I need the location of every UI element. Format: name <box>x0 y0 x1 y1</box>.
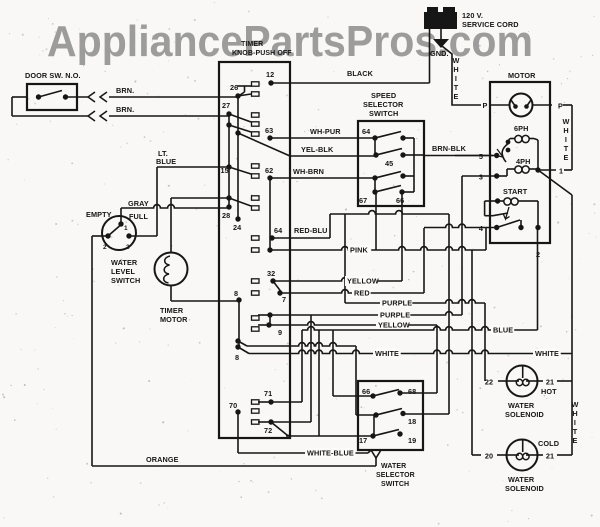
svg-text:START: START <box>503 187 528 196</box>
svg-text:SWITCH: SWITCH <box>111 276 140 285</box>
svg-text:SOLENOID: SOLENOID <box>505 410 544 419</box>
svg-text:HOT: HOT <box>541 387 557 396</box>
svg-text:67: 67 <box>359 196 367 205</box>
svg-text:12: 12 <box>266 70 274 79</box>
svg-text:COLD: COLD <box>538 439 559 448</box>
svg-text:7: 7 <box>282 295 286 304</box>
svg-text:26: 26 <box>230 83 238 92</box>
svg-text:32: 32 <box>267 269 275 278</box>
svg-text:20: 20 <box>485 452 493 461</box>
svg-text:W: W <box>453 56 460 65</box>
svg-text:66: 66 <box>396 196 404 205</box>
svg-text:64: 64 <box>362 127 371 136</box>
svg-text:45: 45 <box>385 159 393 168</box>
svg-text:21: 21 <box>546 378 554 387</box>
svg-text:6PH: 6PH <box>514 124 529 133</box>
svg-text:BLUE: BLUE <box>493 326 513 335</box>
svg-text:GRAY: GRAY <box>128 199 149 208</box>
svg-text:3: 3 <box>126 244 130 251</box>
svg-text:YELLOW: YELLOW <box>347 277 379 286</box>
svg-text:17: 17 <box>359 436 367 445</box>
svg-text:AppliancePartsPros.com: AppliancePartsPros.com <box>47 18 533 66</box>
svg-text:72: 72 <box>264 426 272 435</box>
svg-text:9: 9 <box>278 328 282 337</box>
svg-text:WH-BRN: WH-BRN <box>293 167 324 176</box>
svg-text:PURPLE: PURPLE <box>382 299 412 308</box>
svg-text:I: I <box>455 74 457 83</box>
svg-text:T: T <box>454 83 459 92</box>
svg-text:62: 62 <box>265 166 273 175</box>
svg-text:WHITE-BLUE: WHITE-BLUE <box>307 449 354 458</box>
svg-text:P: P <box>483 101 488 110</box>
svg-text:H: H <box>572 409 577 418</box>
svg-text:63: 63 <box>265 126 273 135</box>
svg-text:MOTOR: MOTOR <box>160 315 188 324</box>
svg-text:I: I <box>565 135 567 144</box>
svg-text:SWITCH: SWITCH <box>381 481 409 488</box>
svg-text:18: 18 <box>408 417 416 426</box>
svg-text:WH-PUR: WH-PUR <box>310 127 341 136</box>
svg-text:E: E <box>564 153 569 162</box>
svg-text:71: 71 <box>264 389 272 398</box>
svg-text:E: E <box>573 436 578 445</box>
svg-text:WATER: WATER <box>508 401 535 410</box>
svg-text:PURPLE: PURPLE <box>380 311 410 320</box>
svg-text:1: 1 <box>124 225 128 232</box>
svg-text:3: 3 <box>479 173 483 182</box>
svg-text:H: H <box>563 126 568 135</box>
svg-text:70: 70 <box>229 401 237 410</box>
svg-text:WATER: WATER <box>381 463 406 470</box>
svg-text:66: 66 <box>362 387 370 396</box>
svg-text:W: W <box>572 400 579 409</box>
svg-text:SERVICE CORD: SERVICE CORD <box>462 20 519 29</box>
svg-text:21: 21 <box>546 452 554 461</box>
svg-text:24: 24 <box>233 223 242 232</box>
svg-text:TIMER: TIMER <box>241 41 263 48</box>
svg-text:22: 22 <box>485 378 493 387</box>
svg-text:SOLENOID: SOLENOID <box>505 484 544 493</box>
svg-text:ORANGE: ORANGE <box>146 455 179 464</box>
svg-text:19: 19 <box>408 436 416 445</box>
svg-text:GND.: GND. <box>430 49 449 58</box>
svg-text:PINK: PINK <box>350 246 368 255</box>
svg-text:KNOB-PUSH OFF: KNOB-PUSH OFF <box>232 50 292 57</box>
svg-text:2: 2 <box>103 244 107 251</box>
svg-text:TIMER: TIMER <box>160 306 184 315</box>
svg-text:27: 27 <box>222 101 230 110</box>
svg-text:8: 8 <box>235 353 239 362</box>
svg-text:BLUE: BLUE <box>156 157 176 166</box>
svg-text:BRN.: BRN. <box>116 86 134 95</box>
svg-text:H: H <box>453 65 458 74</box>
svg-text:120 V.: 120 V. <box>462 11 483 20</box>
svg-text:BLACK: BLACK <box>347 69 374 78</box>
svg-text:8: 8 <box>234 289 238 298</box>
svg-text:LEVEL: LEVEL <box>111 267 135 276</box>
svg-text:4PH: 4PH <box>516 157 531 166</box>
svg-text:1: 1 <box>559 167 563 176</box>
svg-text:WATER: WATER <box>508 475 535 484</box>
svg-text:SWITCH: SWITCH <box>369 109 398 118</box>
svg-text:28: 28 <box>222 211 230 220</box>
svg-text:FULL: FULL <box>129 212 148 221</box>
svg-text:64: 64 <box>274 226 283 235</box>
svg-text:RED: RED <box>354 289 370 298</box>
svg-text:WHITE: WHITE <box>375 349 399 358</box>
svg-text:SPEED: SPEED <box>371 91 396 100</box>
svg-text:I: I <box>574 418 576 427</box>
svg-text:YEL-BLK: YEL-BLK <box>301 145 334 154</box>
svg-text:SELECTOR: SELECTOR <box>363 100 404 109</box>
svg-text:DOOR SW. N.O.: DOOR SW. N.O. <box>25 71 81 80</box>
svg-text:W: W <box>563 117 570 126</box>
svg-text:BRN-BLK: BRN-BLK <box>432 144 467 153</box>
svg-text:E: E <box>454 92 459 101</box>
svg-text:T: T <box>564 144 569 153</box>
svg-text:5: 5 <box>479 152 483 161</box>
svg-text:EMPTY: EMPTY <box>86 210 112 219</box>
svg-text:RED-BLU: RED-BLU <box>294 226 328 235</box>
svg-text:WATER: WATER <box>111 258 138 267</box>
svg-text:SELECTOR: SELECTOR <box>376 472 415 479</box>
svg-text:YELLOW: YELLOW <box>378 321 410 330</box>
svg-text:WHITE: WHITE <box>535 349 559 358</box>
svg-text:MOTOR: MOTOR <box>508 71 536 80</box>
svg-text:68: 68 <box>408 387 416 396</box>
svg-text:BRN.: BRN. <box>116 105 134 114</box>
svg-text:P: P <box>558 102 563 111</box>
svg-text:T: T <box>573 427 578 436</box>
